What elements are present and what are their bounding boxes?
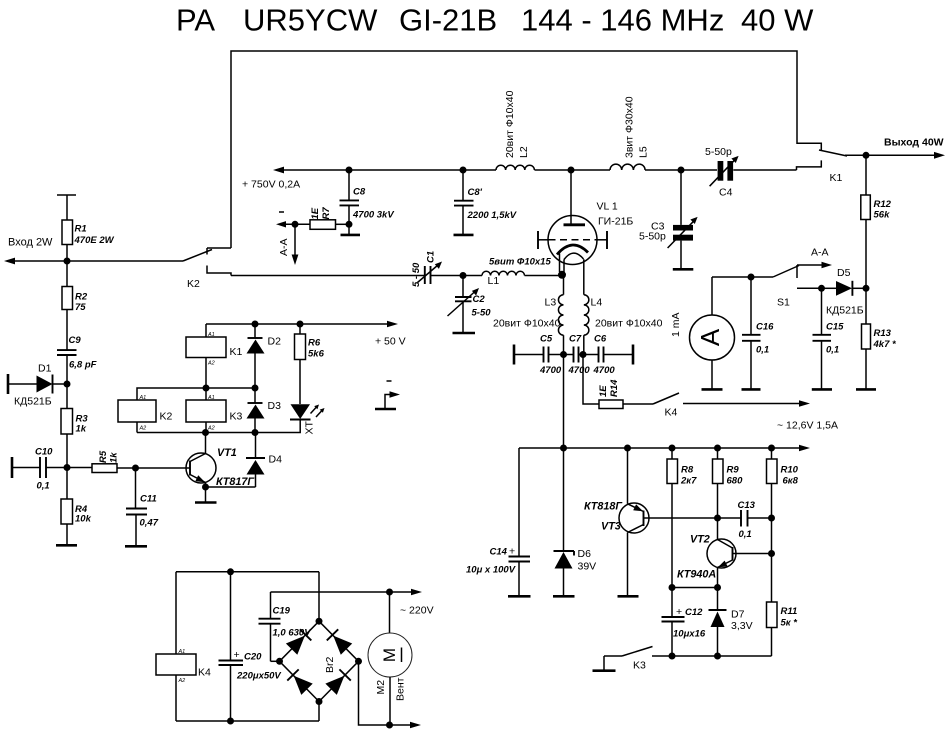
svg-text:A-A: A-A: [278, 238, 290, 256]
svg-text:C2: C2: [473, 294, 486, 305]
ground R13: [856, 388, 876, 391]
inductor L2: [496, 90, 534, 170]
node anode junction: [568, 167, 575, 174]
svg-text:C13: C13: [738, 500, 756, 511]
wire bridge bottom to rail: [318, 702, 320, 722]
node VT1 base junction: [132, 465, 139, 472]
svg-text:КД521Б: КД521Б: [826, 305, 864, 317]
node L3 bottom junction: [560, 351, 567, 358]
diode D4: [206, 433, 283, 488]
svg-text:VL 1: VL 1: [597, 201, 618, 213]
svg-text:144 - 146 MHz: 144 - 146 MHz: [521, 3, 724, 38]
wire K3 row: [652, 655, 772, 657]
wire bridge feed: [318, 572, 320, 621]
wire R10 column to VT2 base: [771, 518, 773, 554]
node motor top junction: [386, 589, 393, 596]
svg-text:R1: R1: [75, 224, 87, 235]
diode D3: [247, 388, 282, 433]
node L4 bottom junction: [580, 351, 587, 358]
wire +50V rail with arrow: [206, 321, 406, 348]
node C16 top junction: [748, 274, 755, 281]
svg-text:~ 220V: ~ 220V: [400, 605, 434, 617]
svg-text:1E: 1E: [310, 207, 321, 219]
resistor R13: [862, 288, 897, 389]
svg-text:D7: D7: [731, 609, 745, 621]
wire output with arrow: [845, 137, 945, 159]
svg-text:C12: C12: [685, 607, 703, 618]
relay contact K1: [797, 150, 848, 184]
transistor VT1 КТ817Г: [136, 433, 256, 489]
svg-text:220μx50V: 220μx50V: [236, 671, 281, 682]
svg-text:КТ818Г: КТ818Г: [584, 501, 623, 513]
node C2 junction: [460, 272, 467, 279]
svg-text:75: 75: [75, 302, 86, 313]
capacitor C11: [126, 468, 159, 546]
svg-text:D3: D3: [268, 400, 282, 412]
node C12 top junction: [669, 584, 676, 591]
svg-text:КД521Б: КД521Б: [14, 396, 52, 408]
node rail heater junction: [560, 445, 567, 452]
wire cathode to 12V rail: [563, 355, 565, 449]
svg-text:L5: L5: [638, 146, 650, 158]
node R6 top: [297, 321, 304, 328]
svg-text:КТ817Г: КТ817Г: [216, 476, 255, 488]
svg-text:ГИ-21Б: ГИ-21Б: [598, 216, 633, 228]
svg-text:1k: 1k: [109, 452, 120, 463]
svg-text:D1: D1: [38, 363, 52, 375]
node D1 junction: [64, 381, 71, 388]
svg-text:K1: K1: [230, 346, 243, 358]
svg-text:5к *: 5к *: [781, 618, 799, 629]
node C12 bottom junction: [669, 653, 676, 660]
wire feedthrough row: [514, 345, 633, 365]
svg-text:56k: 56k: [874, 210, 891, 221]
diode D7 zener: [709, 588, 753, 657]
resistor R10: [767, 448, 799, 518]
svg-text:10k: 10k: [75, 514, 92, 525]
svg-text:20вит Ф10x40: 20вит Ф10x40: [504, 90, 516, 158]
node C8' top: [460, 167, 467, 174]
ground R4: [56, 544, 77, 547]
svg-text:КТ940А: КТ940А: [677, 569, 716, 581]
svg-text:0,1: 0,1: [756, 345, 769, 356]
svg-text:R7: R7: [321, 207, 332, 220]
ground VT1: [195, 487, 217, 503]
svg-text:~ 12,6V 1,5A: ~ 12,6V 1,5A: [777, 420, 838, 432]
svg-text:VT3: VT3: [601, 521, 621, 533]
resistor R8: [667, 448, 697, 588]
svg-text:K3: K3: [633, 660, 646, 672]
meter PA1 1mA: [670, 277, 751, 389]
node D2 top: [252, 321, 259, 328]
svg-text:C19: C19: [273, 606, 291, 617]
svg-text:680: 680: [727, 476, 744, 487]
relay contact K4: [653, 393, 679, 419]
svg-text:A2: A2: [178, 678, 186, 684]
node D7 bottom junction: [714, 653, 721, 660]
wire relay row3: [137, 432, 280, 434]
wire chassis boundary outline: [231, 51, 821, 248]
node D5 right junction: [863, 285, 870, 292]
svg-text:6к8: 6к8: [783, 476, 799, 487]
svg-text:D6: D6: [578, 548, 592, 560]
svg-text:2к7: 2к7: [680, 476, 697, 487]
svg-text:+ 750V 0,2A: + 750V 0,2A: [242, 179, 300, 191]
svg-text:5вит Ф10x15: 5вит Ф10x15: [489, 257, 551, 268]
node C20 top junction: [227, 568, 234, 575]
svg-text:C20: C20: [244, 652, 262, 663]
resistor R11: [767, 554, 799, 657]
wire L1 to cathode node: [525, 275, 563, 277]
svg-text:M: M: [380, 648, 399, 662]
wire +750V rail with arrow: [242, 167, 717, 191]
svg-text:10μ x 100V: 10μ x 100V: [466, 565, 516, 576]
wire neutral arrow: [390, 722, 422, 729]
svg-text:VT1: VT1: [217, 447, 237, 459]
resistor R4: [61, 468, 92, 546]
svg-text:20вит Ф10x40: 20вит Ф10x40: [595, 318, 663, 330]
svg-text:1 mA: 1 mA: [670, 312, 682, 337]
svg-text:K2: K2: [160, 411, 173, 423]
node rail VT3 junction: [624, 445, 631, 452]
svg-text:1E: 1E: [598, 385, 609, 397]
wire emitter row: [672, 587, 718, 589]
wire A-A bias arrow down: [278, 212, 298, 265]
svg-text:GI-21B: GI-21B: [399, 3, 497, 38]
capacitor C15: [813, 288, 845, 389]
svg-text:+: +: [234, 649, 240, 661]
svg-text:R12: R12: [874, 199, 892, 210]
svg-text:5-50p: 5-50p: [639, 231, 666, 243]
svg-text:C11: C11: [140, 494, 157, 505]
diode D6 zener: [554, 448, 597, 596]
node K1-K3 junction: [203, 385, 210, 392]
svg-text:4700: 4700: [593, 365, 616, 376]
svg-text:L3: L3: [545, 297, 557, 309]
svg-text:K4: K4: [665, 407, 678, 419]
capacitor C13: [738, 500, 772, 540]
svg-text:5 - 50: 5 - 50: [411, 262, 422, 287]
svg-text:A2: A2: [139, 426, 147, 432]
node input junction: [64, 258, 71, 265]
node bridge right: [355, 658, 362, 665]
svg-text:Вход 2W: Вход 2W: [8, 237, 53, 249]
inductor L4: [584, 295, 663, 355]
svg-text:D4: D4: [269, 454, 283, 466]
svg-text:10μx16: 10μx16: [673, 629, 706, 640]
svg-text:K1: K1: [830, 172, 843, 184]
svg-text:4700: 4700: [539, 365, 562, 376]
node bridge top: [316, 618, 323, 625]
capacitor C8': [454, 170, 517, 235]
capacitor C14: [466, 448, 530, 596]
relay K1 coil: [186, 324, 243, 388]
svg-text:R14: R14: [609, 379, 620, 397]
svg-text:L1: L1: [488, 275, 500, 287]
capacitor C9: [57, 335, 97, 409]
ground C3: [673, 268, 694, 271]
relay K2 coil: [118, 395, 173, 433]
diode D2: [247, 324, 282, 388]
ground C11: [125, 545, 147, 548]
svg-text:K4: K4: [198, 667, 211, 679]
wire K4 to heater arrow: [683, 400, 810, 407]
svg-text:R5: R5: [98, 450, 109, 463]
node C20 bottom junction: [227, 718, 234, 725]
chassis arrow symbol: [375, 381, 400, 409]
svg-text:Выход 40W: Выход 40W: [884, 137, 944, 149]
wire A-A arrow right: [797, 247, 832, 269]
svg-text:4700 3kV: 4700 3kV: [352, 210, 394, 221]
node C8 top: [346, 167, 353, 174]
svg-text:C4: C4: [719, 187, 733, 199]
svg-text:Br2: Br2: [324, 657, 336, 674]
svg-text:5-50: 5-50: [472, 308, 492, 319]
svg-text:+: +: [676, 606, 682, 618]
node D7 top junction: [714, 584, 721, 591]
svg-text:+: +: [509, 546, 515, 558]
diode D1: [8, 363, 67, 408]
node cathode junction: [558, 271, 566, 279]
LED HL1: [280, 404, 325, 434]
wire C1 to L1: [431, 275, 483, 277]
svg-text:A1: A1: [139, 395, 147, 401]
svg-text:470E 2W: 470E 2W: [74, 235, 115, 246]
svg-text:2200 1,5kV: 2200 1,5kV: [467, 210, 517, 221]
svg-text:C16: C16: [756, 322, 774, 333]
node motor bottom junction: [386, 722, 393, 729]
svg-text:1k: 1k: [76, 424, 87, 435]
node VT2 base junction: [768, 550, 775, 557]
ground C16: [742, 388, 761, 391]
svg-text:Вент: Вент: [395, 677, 407, 701]
svg-text:4700: 4700: [568, 365, 591, 376]
svg-text:R9: R9: [727, 465, 740, 476]
svg-text:C15: C15: [826, 322, 844, 333]
resistor R1: [57, 195, 115, 261]
node R7 left junction: [292, 221, 299, 228]
inductor L1: [482, 257, 551, 288]
node C3 top: [678, 167, 685, 174]
node rail R10 junction: [768, 445, 775, 452]
resistor R14: [583, 355, 653, 409]
svg-text:5k6: 5k6: [308, 349, 325, 360]
svg-text:K2: K2: [187, 278, 200, 290]
wire fan supply bottom: [176, 720, 319, 722]
svg-text:39V: 39V: [578, 561, 597, 573]
wire fan supply top: [176, 571, 319, 573]
svg-text:L4: L4: [591, 297, 603, 309]
capacitor C19: [259, 592, 312, 661]
node base row R10 junction: [768, 515, 775, 522]
motor M2 fan: [368, 592, 412, 725]
svg-text:C8': C8': [468, 187, 483, 198]
capacitor C5: [539, 334, 562, 377]
svg-text:D2: D2: [268, 336, 282, 348]
tube VL1 ГИ-21Б: [538, 170, 633, 295]
svg-text:R10: R10: [781, 465, 799, 476]
capacitor C16: [742, 277, 774, 389]
node rail R8 junction: [669, 445, 676, 452]
svg-text:0,1: 0,1: [826, 345, 839, 356]
ground VT3: [618, 595, 639, 598]
capacitor C3 variable: [639, 170, 698, 269]
svg-text:D5: D5: [837, 267, 851, 279]
svg-text:A1: A1: [207, 395, 215, 401]
capacitor C6: [593, 334, 616, 377]
svg-text:A1: A1: [178, 649, 186, 655]
capacitor C7: [568, 334, 591, 377]
svg-text:C7: C7: [569, 334, 582, 345]
svg-text:1,0 630V: 1,0 630V: [273, 628, 312, 639]
node output junction: [863, 152, 870, 159]
svg-text:0,1: 0,1: [739, 529, 752, 540]
capacitor C8: [340, 170, 395, 235]
resistor R7: [276, 207, 349, 230]
capacitor C4 variable: [705, 146, 797, 199]
svg-text:40 W: 40 W: [741, 3, 814, 38]
svg-text:0,47: 0,47: [140, 518, 159, 529]
node bridge left: [276, 658, 283, 665]
capacitor C1 variable: [411, 251, 442, 287]
wire relay row2: [137, 388, 255, 400]
resistor R9: [713, 448, 744, 518]
ground C14: [508, 595, 531, 598]
ground C8': [454, 234, 474, 237]
node C15 top junction: [818, 285, 825, 292]
node C8-R7 junction: [346, 221, 353, 228]
svg-text:+ 50 V: + 50 V: [375, 336, 406, 348]
svg-text:3,3V: 3,3V: [731, 620, 753, 632]
svg-text:R8: R8: [681, 465, 694, 476]
svg-text:ХТ: ХТ: [304, 420, 316, 434]
inductor L5: [610, 96, 650, 170]
relay contact K3: [604, 647, 653, 672]
svg-text:A: A: [695, 328, 725, 346]
node rail R9 junction: [714, 445, 721, 452]
inductor L3: [493, 295, 564, 355]
svg-text:A-A: A-A: [811, 247, 829, 259]
ground C15: [812, 388, 832, 391]
ground meter: [702, 388, 723, 391]
resistor R3: [61, 409, 88, 468]
svg-text:6,8 pF: 6,8 pF: [69, 360, 97, 371]
wire 220V line with arrow: [271, 589, 434, 617]
svg-text:R13: R13: [874, 328, 892, 339]
svg-text:L2: L2: [518, 146, 530, 158]
capacitor C10: [12, 447, 67, 492]
wire bridge right to neutral: [359, 661, 390, 725]
wire input line with arrow: [4, 237, 183, 265]
svg-text:M2: M2: [375, 680, 387, 695]
svg-text:20вит Ф10x40: 20вит Ф10x40: [493, 318, 561, 330]
svg-text:4k7 *: 4k7 *: [873, 339, 897, 350]
node VT1 emitter junction: [202, 484, 209, 491]
relay K3 coil: [186, 388, 243, 433]
svg-text:C1: C1: [426, 251, 437, 263]
diode D5: [822, 267, 867, 317]
wire 12.6V rail with arrow: [519, 420, 838, 452]
resistor R6: [295, 324, 325, 404]
svg-text:R2: R2: [75, 292, 88, 303]
svg-text:C6: C6: [594, 334, 607, 345]
node D2-D3 junction: [252, 385, 259, 392]
ground C2: [453, 332, 476, 335]
svg-text:5-50p: 5-50p: [705, 146, 732, 158]
svg-text:C10: C10: [35, 447, 53, 458]
svg-text:3вит Ф30x40: 3вит Ф30x40: [624, 96, 636, 158]
transistor VT2 КТ940А: [677, 518, 772, 588]
switch S1: [751, 265, 822, 309]
resistor R2: [62, 261, 88, 350]
capacitor C12: [662, 588, 706, 657]
capacitor C2 variable: [448, 276, 492, 333]
svg-text:S1: S1: [777, 297, 790, 309]
ground D6: [553, 595, 575, 598]
svg-text:K3: K3: [230, 411, 243, 423]
node bridge bottom: [316, 698, 323, 705]
resistor R12: [861, 155, 892, 288]
svg-text:A1: A1: [207, 332, 215, 338]
resistor R5: [67, 450, 136, 472]
svg-text:R6: R6: [308, 338, 321, 349]
svg-text:C5: C5: [540, 334, 553, 345]
ground K3: [593, 669, 616, 672]
svg-text:C9: C9: [69, 335, 82, 346]
svg-text:VT2: VT2: [690, 534, 710, 546]
relay K4 coil: [156, 572, 211, 721]
ground C8: [341, 234, 361, 237]
svg-text:PA: PA: [176, 3, 215, 38]
capacitor C20: [219, 572, 282, 721]
transistor VT3 КТ818Г: [584, 448, 741, 596]
svg-text:0,1: 0,1: [37, 481, 50, 492]
bridge rectifier Br2: [280, 621, 359, 701]
relay contact K2: [183, 248, 231, 290]
node D3-D4 junction: [252, 429, 259, 436]
node base row R9 junction: [714, 515, 721, 522]
node C10 junction: [64, 464, 71, 471]
svg-text:C8: C8: [353, 187, 366, 198]
node VT1 collector junction: [202, 429, 209, 436]
wire grid line from K2 to tube cathode: [231, 275, 424, 277]
svg-text:R11: R11: [781, 606, 798, 617]
svg-text:UR5YCW: UR5YCW: [243, 3, 378, 38]
svg-text:A2: A2: [207, 361, 215, 367]
svg-text:C14: C14: [490, 547, 508, 558]
